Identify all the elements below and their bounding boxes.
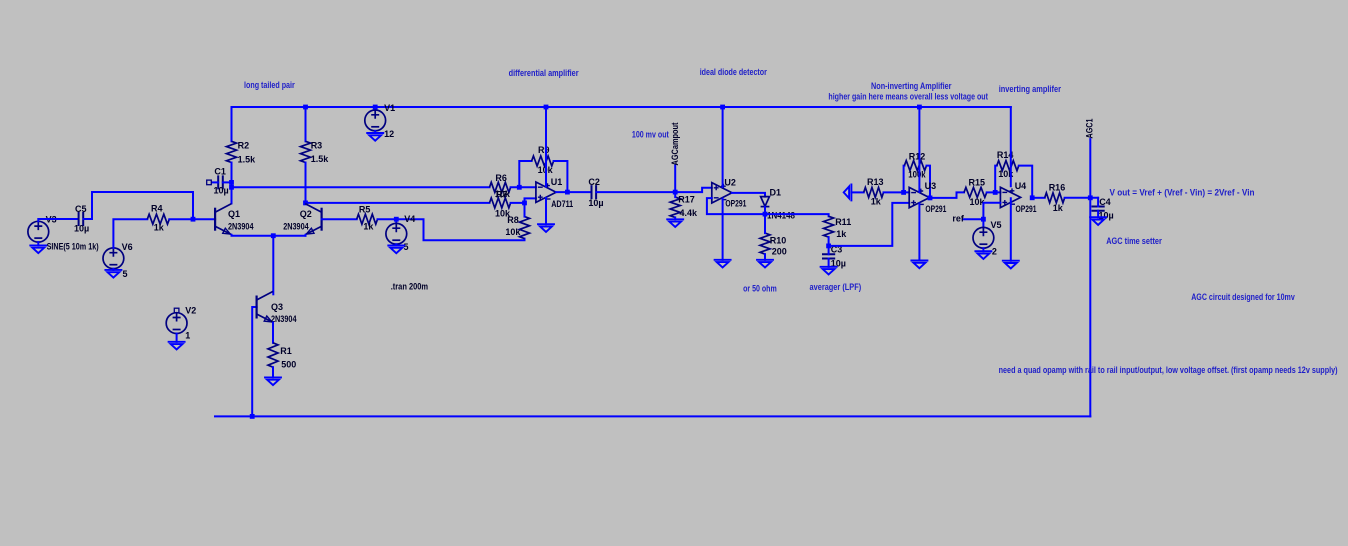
resistor R1 [268,343,278,367]
svg-text:100k: 100k [908,170,926,180]
wire R13 to U3 minus input [884,191,910,193]
resistor R17 [670,197,680,217]
node rail-U1 junction [544,105,549,110]
resistor R16 [1045,193,1065,203]
node U3 output junction [928,196,933,201]
svg-text:R2: R2 [238,140,250,150]
node V4 junction [394,217,399,222]
wire C3 leads [828,246,830,254]
wire Q2 collector to differential amp (plus line) [306,202,490,204]
capacitor C1 [218,175,223,189]
node averager junction [826,244,831,249]
ground below U1 [538,224,554,232]
svg-text:SINE(5 10m 1k): SINE(5 10m 1k) [47,242,99,252]
svg-text:1k: 1k [363,221,374,231]
wire U3 output to R15 [930,192,964,198]
svg-text:1k: 1k [1053,203,1064,213]
wire R2 top lead from rail [231,107,233,141]
voltage source V2 with open terminal [174,308,179,313]
capacitor C2 [592,185,597,199]
resistor R4 [147,214,169,224]
node rail-U2 junction [720,105,725,110]
node rail-U3 junction [917,105,922,110]
svg-text:U2: U2 [724,178,736,188]
wire R16 to AGC node and C4 [1065,197,1099,199]
ground below U3 [911,261,927,269]
wire feedback to U2 minus input [707,198,765,214]
svg-text:2N3904: 2N3904 [283,221,309,231]
svg-text:1: 1 [185,331,190,341]
resistor R6 [490,182,511,192]
wire C2 to U2 plus input [596,188,711,192]
svg-text:OP291: OP291 [1016,204,1037,214]
node AGCampout junction [673,190,678,195]
wire V6 to R4 [113,219,147,248]
wire ref node up to U4 plus input [983,203,1000,219]
svg-text:ideal diode detector: ideal diode detector [700,67,768,77]
svg-text:2: 2 [992,246,997,256]
svg-text:12: 12 [384,129,394,139]
op-amp U3 OP291 [909,187,929,207]
node detector junction [763,212,768,217]
wire U3 V+ supply from rail [918,107,920,192]
svg-text:R11: R11 [835,217,851,227]
svg-text:C5: C5 [75,204,87,214]
svg-text:C2: C2 [588,177,600,187]
voltage source V5 [982,219,984,227]
wire V4 to ground [395,244,397,245]
node U4 minus junction [993,190,998,195]
node AGC junction [1088,195,1093,200]
svg-text:R8: R8 [507,215,519,225]
svg-text:500: 500 [281,360,296,370]
wire D1 cathode to detector node [764,207,766,215]
diode D1 1N4148 [761,197,770,207]
svg-text:10µ: 10µ [588,198,603,208]
ground below C4 [1090,217,1106,225]
node U1 output junction [565,190,570,195]
ground rotated at R13 left [844,184,852,200]
wire detector node to R11 [765,214,829,216]
svg-text:10µ: 10µ [214,186,229,196]
svg-text:R7: R7 [496,189,508,199]
node tail junction [271,233,276,238]
wire R11 to C3 node [828,237,830,246]
transistor Q2 2N3904 [305,204,321,235]
svg-text:1.5k: 1.5k [311,154,330,164]
wire C1 left lead with open terminal [211,181,219,183]
wire U4 V+ supply from rail corner [1010,107,1012,186]
svg-text:AGC circuit designed for 10mv: AGC circuit designed for 10mv [1191,292,1295,302]
svg-text:Q1: Q1 [228,209,240,219]
svg-text:AGCampout: AGCampout [670,123,680,166]
wire U1 V+ supply from rail [545,107,547,187]
svg-text:R4: R4 [151,204,163,214]
wire V5 to ground [982,248,984,251]
wire U2 output to D1 [732,193,765,197]
op-amp U2 OP291 [712,183,732,203]
svg-text:ref: ref [952,213,965,223]
svg-text:Non-inverting Amplifier: Non-inverting Amplifier [871,81,952,91]
wire R2 bottom to Q1 collector [231,163,233,204]
svg-text:OP291: OP291 [725,199,746,209]
wire R8 top lead [524,203,526,217]
wire R12 left leg [903,166,906,193]
wire U4 output to R16 [1032,197,1045,199]
wire Q2 emitter to tail [305,234,307,237]
capacitor C4 [1092,207,1105,211]
svg-text:R16: R16 [1049,182,1066,192]
resistor R10 [760,233,770,254]
svg-text:V6: V6 [122,242,133,252]
wire C1 right lead [223,181,232,183]
wire R6 to U1 minus input [511,186,536,188]
wire R5 to V4 and level-shift loop [378,219,525,240]
wire U1 output to C2 [556,191,591,193]
resistor R12 [904,161,926,171]
node ref junction [981,217,986,222]
ground below V3 [30,245,46,253]
svg-text:V1: V1 [384,103,395,113]
svg-text:inverting amplifer: inverting amplifer [999,84,1062,94]
ground below V2 [169,342,185,350]
svg-text:Q3: Q3 [271,302,283,312]
svg-text:U1: U1 [551,177,563,187]
svg-text:R9: R9 [538,145,550,155]
svg-text:U3: U3 [925,181,937,191]
net ref label stub [963,218,984,220]
node C1-R2 junction [229,180,234,185]
svg-text:1k: 1k [154,223,165,233]
svg-text:10k: 10k [998,169,1014,179]
resistor R8 [520,217,530,239]
svg-text:AD711: AD711 [551,199,573,209]
wire bottom feedback rail [215,415,1090,417]
svg-text:V2: V2 [185,306,196,316]
capacitor C3 [822,254,835,258]
wire R3 top lead from rail [305,107,307,141]
svg-text:AGC time setter: AGC time setter [1106,236,1162,246]
svg-text:100 mv out: 100 mv out [632,130,669,140]
wire ground to R13 [851,191,863,193]
wire C4 leads [1097,198,1099,207]
capacitor C5 [79,212,84,226]
resistor R7 [490,198,511,208]
wire R3 bottom to Q2 collector [305,163,307,204]
wire R15 to U4 minus input [987,191,1001,193]
op-amp U1 AD711 [536,182,556,202]
svg-text:V4: V4 [404,214,415,224]
wire V1 to ground [374,131,376,133]
ground below U2 [715,260,731,268]
ground below R1 [265,377,281,385]
ground below V4 [388,246,404,254]
svg-text:averager (LPF): averager (LPF) [810,282,862,292]
svg-text:R10: R10 [770,236,787,246]
ground below V6 [105,270,121,278]
svg-text:V out = Vref + (Vref - Vin): V out = Vref + (Vref - Vin) = 2Vref - Vi… [1110,188,1255,198]
wire top supply rail [232,106,1011,108]
svg-text:10µ: 10µ [74,224,89,234]
svg-text:4.4k: 4.4k [680,208,699,218]
node rail-V1 junction [373,105,378,110]
node Q3 base junction [250,414,255,419]
wire Q3 emitter to R1 [272,322,274,342]
svg-text:10k: 10k [505,227,521,237]
wire C5 over-hop to base node [84,192,194,219]
wire R17 leads [674,192,676,197]
wire averager to U3 plus input [829,203,910,246]
svg-text:higher gain here means overall: higher gain here means overall less volt… [828,92,988,102]
svg-text:2N3904: 2N3904 [271,314,297,324]
svg-text:OP291: OP291 [925,204,946,214]
svg-text:.tran 200m: .tran 200m [391,281,428,291]
voltage source V3 SINE input [28,221,49,242]
node Q1 collector tap [229,185,234,190]
ground below U4 [1003,261,1019,269]
wire Q3 base from bottom rail [252,307,256,416]
wire R12 right leg to U3 output [927,166,931,198]
wire R9 to U1 output [554,161,568,192]
voltage source V6 [103,248,124,269]
resistor R5 [357,214,378,224]
svg-text:1k: 1k [836,229,847,239]
resistor R14 [997,161,1019,171]
svg-text:5: 5 [123,269,128,279]
svg-text:1k: 1k [871,197,882,207]
svg-text:Q2: Q2 [300,209,312,219]
svg-text:200: 200 [772,247,787,257]
svg-text:R17: R17 [678,195,695,205]
node Q2 collector tap [303,201,308,206]
resistor R3 [301,141,311,162]
net AGC1 flag [1089,139,1091,198]
svg-text:differential amplifier: differential amplifier [509,68,579,78]
wire V3 to C5 [38,219,78,221]
resistor R15 [964,187,987,197]
wire Q2 base to R5 [322,218,357,220]
node feedback tap [517,185,522,190]
svg-text:C4: C4 [1099,197,1111,207]
wire V3 to ground [37,242,39,245]
wire feedback up-left of R9 [519,161,531,187]
wire R10 leads [764,214,766,233]
wire U2 V+ supply from rail [722,107,724,187]
svg-text:R5: R5 [359,204,371,214]
ground below V1 [367,133,383,141]
wire U1 V- to ground [545,198,547,224]
wire R4 to Q1 base [169,218,215,220]
svg-text:C1: C1 [214,167,226,177]
wire R1 to ground [272,367,274,377]
transistor Q3 2N3904 [257,291,273,322]
svg-text:AGC1: AGC1 [1085,119,1095,139]
wire Q1 emitter to tail [232,234,306,237]
svg-text:or 50 ohm: or 50 ohm [743,283,777,293]
wire U2 V- to ground [722,199,724,260]
wire R14 right leg to U4 output [1019,166,1032,198]
resistor R13 [864,187,884,197]
wire U3 V- to ground [918,203,920,260]
voltage source V4 [395,219,397,223]
svg-text:long tailed pair: long tailed pair [244,80,295,90]
voltage source V1 [374,107,376,110]
wire R14 left leg [995,166,997,193]
node U4 output junction [1030,195,1035,200]
node rail-R3 junction [303,105,308,110]
ground below R17 [667,219,683,227]
node R7-R8 junction [522,201,527,206]
svg-text:D1: D1 [770,187,782,197]
net AGCampout flag [674,166,676,193]
ground below C3 [821,267,837,275]
svg-text:U4: U4 [1015,181,1027,191]
svg-text:R15: R15 [969,177,986,187]
svg-text:need a quad opamp with rail to: need a quad opamp with rail to rail inpu… [999,365,1338,375]
resistor R11 [824,216,834,237]
svg-text:R1: R1 [280,346,292,356]
wire U4 V- to ground [1010,198,1012,260]
wire AGC feedback down [1089,198,1091,417]
ground below V5 [975,251,991,259]
svg-text:R13: R13 [867,177,884,187]
wire V6 to ground [112,269,114,270]
node base junction [191,217,196,222]
svg-text:V5: V5 [991,220,1002,230]
svg-text:1.5k: 1.5k [238,155,257,165]
op-amp U4 OP291 [1000,187,1020,207]
wire tail down to Q3 collector [272,236,274,295]
transistor Q1 2N3904 [215,204,231,235]
svg-text:1N4148: 1N4148 [767,210,795,220]
svg-text:2N3904: 2N3904 [228,221,254,231]
wire R7 to U1 plus input [511,198,536,203]
resistor R9 [532,156,554,166]
resistor R2 [227,141,237,162]
wire Q1 collector to differential amp (minus line) [232,186,490,188]
svg-text:R3: R3 [311,140,323,150]
ground below R10 [757,260,773,268]
wire V2 to ground [176,334,178,342]
node U3 minus junction [901,190,906,195]
svg-text:R6: R6 [495,173,507,183]
svg-text:R12: R12 [909,151,926,161]
